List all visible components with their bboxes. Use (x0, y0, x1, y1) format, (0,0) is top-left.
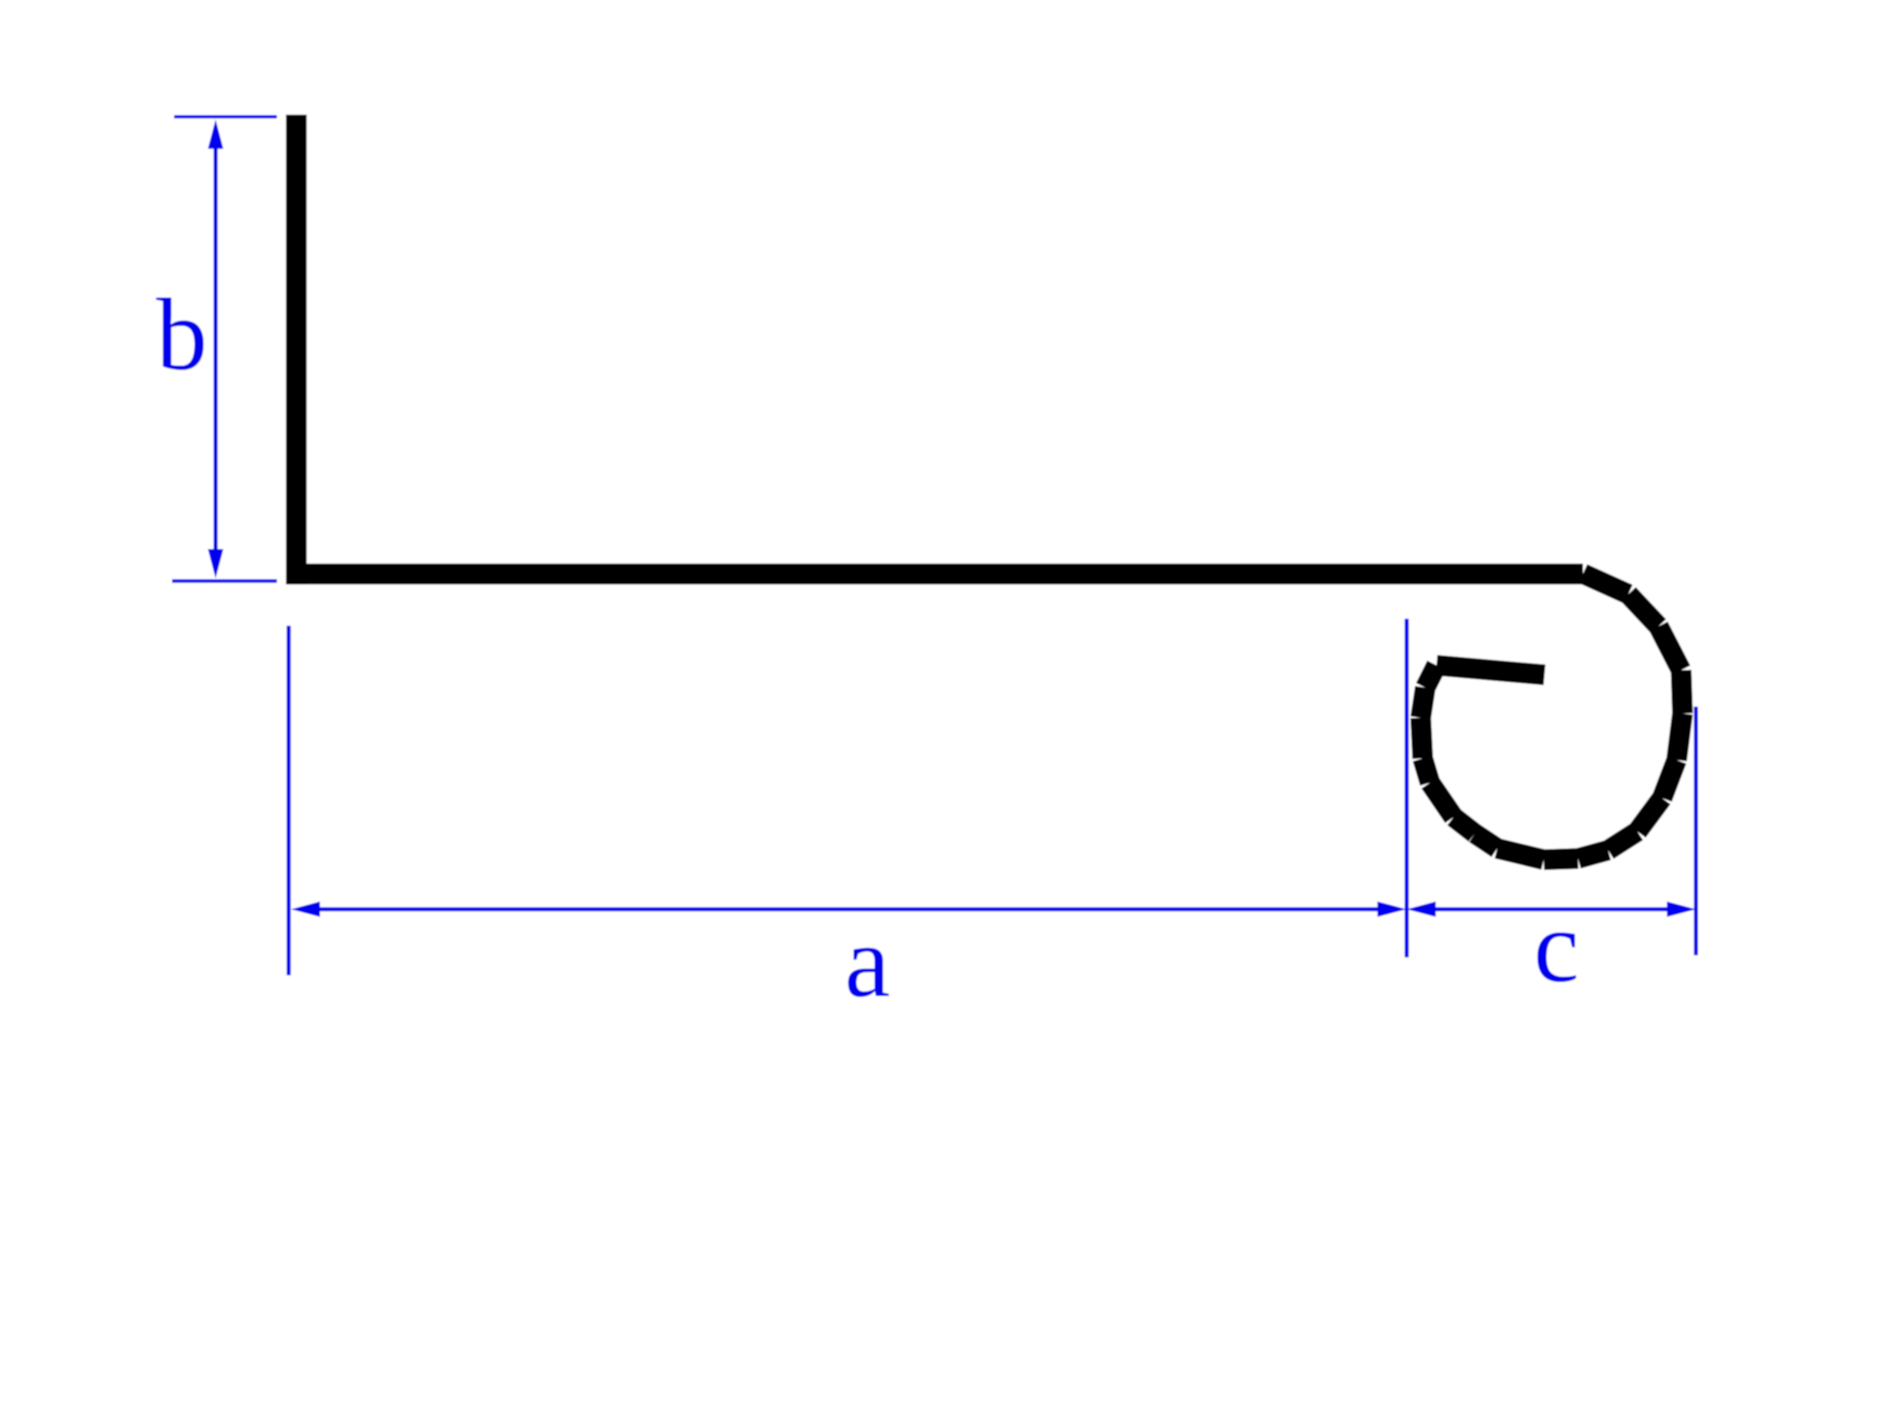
dimension b: bottom arrowhead (208, 549, 223, 578)
extension line middle (at curl start) (1405, 619, 1409, 958)
svg-text:a: a (845, 905, 891, 1019)
extension line right (at curl outer edge) (1694, 707, 1698, 956)
dimension c: horizontal dimension line (1432, 907, 1670, 911)
dimension a: left arrowhead (291, 902, 320, 917)
extension line left (at profile corner) (287, 626, 291, 976)
dimension c: left arrowhead (1407, 902, 1436, 917)
profile curl (hem) (1421, 574, 1683, 860)
dimension a: right arrowhead (1377, 902, 1406, 917)
svg-text:c: c (1534, 890, 1580, 1004)
dimension b: vertical dimension line (214, 144, 218, 553)
svg-text:b: b (156, 278, 208, 392)
dimension b: top arrowhead (208, 120, 223, 149)
profile horizontal leg (286, 564, 1583, 585)
dimension a: horizontal dimension line (317, 907, 1380, 911)
dimension b: top tick (174, 115, 277, 118)
dimension b: bottom tick (172, 579, 277, 582)
dimension c: right arrowhead (1667, 902, 1696, 917)
profile vertical leg (286, 115, 307, 585)
